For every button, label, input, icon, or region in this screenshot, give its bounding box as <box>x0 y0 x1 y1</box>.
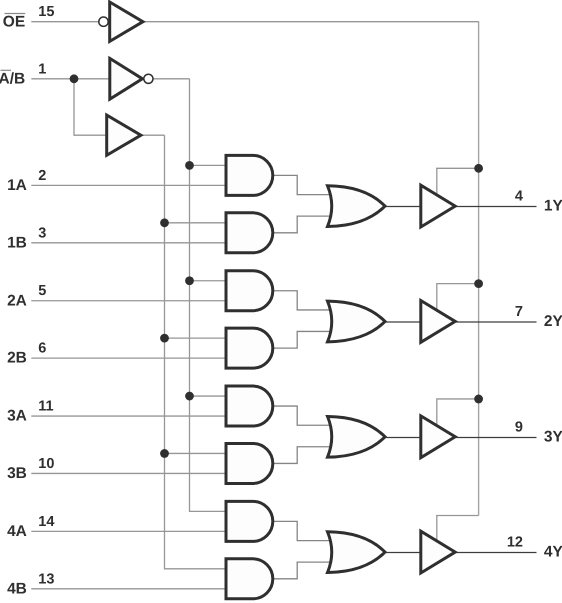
junction A/B fanout node <box>70 74 79 83</box>
AND gate 3B <box>226 443 273 483</box>
wire 2B data input <box>31 357 225 359</box>
wire OE vertical bus (right side) <box>478 21 480 515</box>
wire AND 3B output jog to OR input <box>274 447 334 464</box>
OR gate channel 2 <box>328 301 386 342</box>
wire OR output to buffer 4Y <box>386 552 421 554</box>
wire output-enable tap to buffer 3Y <box>437 399 479 426</box>
bubble on A/B inverter output <box>144 74 153 83</box>
wire buffer output to pin 4Y <box>456 552 536 554</box>
wire OE inverter output to right bus <box>144 21 479 23</box>
svg-text:12: 12 <box>507 535 523 551</box>
wire 3A data input <box>31 415 225 417</box>
wire buffer output to pin 3Y <box>456 437 536 439</box>
wire select-A vertical with turn into 4A gate <box>190 79 225 512</box>
wire select-A stub to 1A gate <box>190 164 225 166</box>
buffer A/B select (generates select-B) <box>107 115 141 155</box>
svg-text:5: 5 <box>38 283 46 299</box>
AND gate 1A <box>226 155 273 195</box>
AND gate 4A <box>226 501 273 541</box>
wire 4A data input <box>31 530 225 532</box>
AND gate 2B <box>226 328 273 368</box>
wire output-enable tap to buffer 2Y <box>437 284 479 311</box>
output buffer 3Y <box>421 416 455 458</box>
svg-text:2: 2 <box>38 168 46 184</box>
wire AND 3A output jog to OR input <box>274 406 334 425</box>
OR gate channel 4 <box>328 532 386 573</box>
wire 1B data input <box>31 242 225 244</box>
wire select-B stub to 3B gate <box>165 452 225 454</box>
OR gate channel 1 <box>328 186 386 227</box>
output buffer 2Y <box>421 301 455 343</box>
wire OR output to buffer 3Y <box>386 437 421 439</box>
wire select-B stub to 2B gate <box>165 337 225 339</box>
wire AND 1A output jog to OR input <box>274 175 334 194</box>
inverter A/B select (generates select-A) <box>110 58 143 99</box>
svg-text:6: 6 <box>38 341 46 357</box>
bubble on OE inverter input <box>99 17 108 26</box>
OR gate channel 3 <box>328 416 386 457</box>
output buffer 1Y <box>421 185 455 227</box>
svg-text:2B: 2B <box>7 350 27 367</box>
wire output-enable tap to buffer 4Y <box>437 516 479 542</box>
overline for OE <box>5 13 26 15</box>
wire AND 4A output jog to OR input <box>274 521 334 540</box>
wire buffer output to pin 1Y <box>456 206 536 208</box>
wire select-B stub to 1B gate <box>165 222 225 224</box>
svg-text:1A: 1A <box>7 177 27 194</box>
svg-text:1B: 1B <box>7 234 27 251</box>
wire select-A stub to 3A gate <box>190 395 225 397</box>
wire 2A data input <box>31 300 225 302</box>
overline for A (of A/B) <box>1 69 12 71</box>
svg-text:1Y: 1Y <box>544 198 562 215</box>
inverter OE input buffer <box>110 2 143 41</box>
svg-text:2A: 2A <box>7 292 27 309</box>
svg-text:1: 1 <box>38 61 46 77</box>
AND gate 2A <box>226 271 273 311</box>
svg-text:4A: 4A <box>7 523 27 540</box>
svg-text:A/B: A/B <box>0 70 25 87</box>
junction select-B to 2B gate <box>160 334 169 343</box>
svg-text:OE: OE <box>3 13 25 30</box>
svg-text:7: 7 <box>515 304 523 320</box>
junction OE bus at channel 1 <box>474 164 483 173</box>
svg-text:13: 13 <box>38 571 54 587</box>
wire AND 2A output jog to OR input <box>274 291 334 310</box>
wire buffer output to pin 2Y <box>456 321 536 323</box>
wire A/B inverter output to select-A vertical <box>153 78 190 80</box>
wire 3B data input <box>31 472 225 474</box>
junction select-A to 2A gate <box>185 276 194 285</box>
svg-text:3Y: 3Y <box>544 428 562 445</box>
svg-text:3A: 3A <box>7 408 27 425</box>
junction select-B to 1B gate <box>160 218 169 227</box>
svg-text:4Y: 4Y <box>544 544 562 561</box>
wire A/B branch down to buffer input <box>74 79 105 135</box>
output buffer 4Y <box>421 531 455 573</box>
wire OE input (pin 15 to inverter bubble) <box>31 21 98 23</box>
svg-text:3: 3 <box>38 225 46 241</box>
wire select-A stub to 2A gate <box>190 280 225 282</box>
svg-text:11: 11 <box>38 399 53 415</box>
wire AND 4B output jog to OR input <box>274 562 334 579</box>
wire select-B buffer output to vertical <box>142 134 164 136</box>
wire OR output to buffer 1Y <box>386 206 421 208</box>
AND gate 4B <box>226 559 273 599</box>
junction select-A to 3A gate <box>185 392 194 401</box>
wire A/B input <box>31 78 108 80</box>
svg-text:10: 10 <box>38 456 54 472</box>
AND gate 3A <box>226 386 273 426</box>
svg-text:3B: 3B <box>7 465 27 482</box>
junction select-B to 3B gate <box>160 449 169 458</box>
wire 1A data input <box>31 184 225 186</box>
svg-text:9: 9 <box>515 419 523 435</box>
junction select-A to 1A gate <box>185 161 194 170</box>
svg-text:4B: 4B <box>7 580 27 597</box>
svg-text:15: 15 <box>38 4 54 20</box>
wire select-B vertical with turn into 4B gate <box>165 135 225 569</box>
wire AND 1B output jog to OR input <box>274 216 334 233</box>
svg-text:14: 14 <box>38 514 54 530</box>
junction OE bus at channel 2 <box>474 279 483 288</box>
wire OR output to buffer 2Y <box>386 321 421 323</box>
wire AND 2B output jog to OR input <box>274 331 334 348</box>
junction OE bus at channel 3 <box>474 395 483 404</box>
svg-text:2Y: 2Y <box>544 313 562 330</box>
svg-text:4: 4 <box>515 189 523 205</box>
wire output-enable tap to buffer 1Y <box>437 168 479 195</box>
wire 4B data input <box>31 588 225 590</box>
AND gate 1B <box>226 213 273 253</box>
